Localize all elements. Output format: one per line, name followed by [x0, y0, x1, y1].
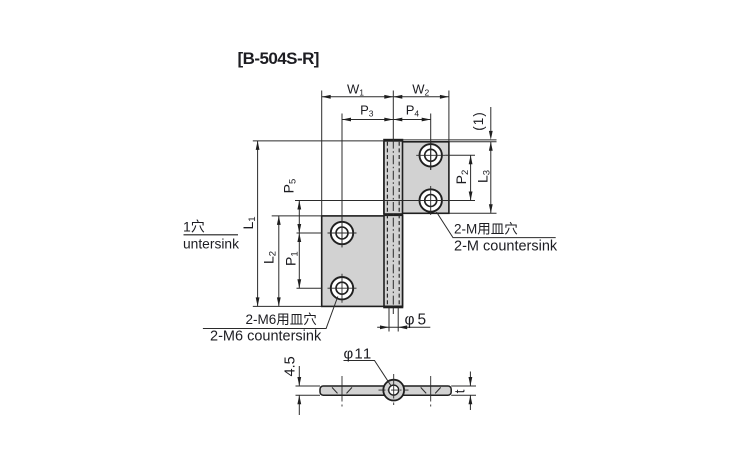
dimension line P5	[298, 201, 300, 234]
right plate upper hole inner hole circle	[425, 149, 437, 161]
svg-text:W1: W1	[347, 82, 364, 98]
left leaf plate	[322, 216, 403, 307]
svg-text:2-M6用皿穴: 2-M6用皿穴	[246, 312, 317, 327]
dimension t arrows	[469, 372, 471, 387]
side view extension lines right	[451, 385, 476, 387]
dimension line L2	[278, 216, 280, 307]
left plate upper hole inner hole circle	[336, 227, 348, 239]
knuckle middle cap	[384, 213, 404, 216]
dimension line P2	[470, 155, 472, 200]
extension line: right plate top edge extended right	[449, 141, 497, 143]
dimension 4.5 arrows	[298, 366, 300, 386]
svg-text:P5: P5	[281, 179, 299, 194]
svg-text:φ11: φ11	[344, 346, 373, 363]
right plate upper hole crosshair	[416, 154, 445, 156]
knuckle hidden line right	[398, 142, 400, 306]
extension line: W1 left vertical	[321, 91, 323, 216]
pivot pin centerline stub	[392, 308, 394, 314]
dimension line P3	[342, 119, 393, 121]
svg-text:4.5: 4.5	[283, 356, 299, 376]
knuckle top cap	[384, 139, 404, 141]
right plate lower hole inner hole circle	[425, 195, 437, 207]
svg-text:W2: W2	[412, 82, 429, 98]
extension line: P3 left vertical (left hole centreline up)	[341, 114, 343, 248]
dimension line L1	[257, 141, 259, 307]
leader 2-M6 countersink	[203, 297, 338, 329]
svg-text:φ5: φ5	[405, 312, 430, 329]
svg-text:P3: P3	[360, 103, 374, 119]
right leaf plate	[384, 142, 449, 214]
svg-text:L2: L2	[261, 251, 279, 264]
side view extension lines left	[296, 385, 321, 387]
side view knuckle circle	[383, 380, 404, 401]
svg-text:(1): (1)	[471, 111, 486, 131]
extension line: W1/W2 centre vertical	[392, 91, 394, 140]
side view countersink hidden V left	[332, 387, 338, 393]
left plate upper hole crosshair	[328, 232, 357, 234]
extension line: knuckle top to right	[403, 139, 497, 141]
dimension line W2	[393, 96, 449, 98]
right plate upper hole outer countersink circle	[420, 144, 442, 166]
side view hole centerline right	[430, 376, 432, 402]
dimension line phi5	[377, 326, 430, 328]
pivot pin lines (phi5)	[388, 308, 390, 332]
extension line: W2 right vertical	[448, 91, 450, 142]
svg-text:L1: L1	[240, 216, 258, 229]
left plate lower hole outer countersink circle	[331, 277, 353, 299]
leader phi11 (underline + bend to knuckle)	[344, 361, 392, 387]
dimension line P1	[298, 233, 300, 288]
dimension line L3	[490, 142, 492, 214]
side view knuckle crosshair	[379, 389, 409, 391]
svg-text:2-M6 countersink: 2-M6 countersink	[210, 329, 322, 345]
extension line: left plate bottom edge extended left	[253, 305, 322, 307]
side view pin hole	[389, 385, 399, 395]
side view leaf bar	[320, 386, 451, 395]
svg-text:1穴: 1穴	[183, 219, 205, 235]
extension line: right upper hole to right (P2 top)	[445, 154, 475, 156]
clipped underline	[184, 234, 239, 236]
dimension line P4	[393, 119, 430, 121]
side view countersink hidden V right	[421, 387, 427, 393]
knuckle strip body	[384, 140, 403, 308]
left plate upper hole outer countersink circle	[331, 222, 353, 244]
extension line: right lower hole across (P5 / P2 bottom)	[295, 200, 475, 202]
knuckle bottom cap	[384, 306, 404, 308]
svg-text:P4: P4	[406, 103, 420, 119]
svg-text:untersink: untersink	[183, 237, 239, 252]
svg-text:P2: P2	[453, 170, 471, 185]
dimension line (1) offset	[490, 107, 492, 131]
svg-text:2-M用皿穴: 2-M用皿穴	[454, 222, 518, 237]
left plate lower hole inner hole circle	[336, 282, 348, 294]
svg-text:t: t	[452, 389, 468, 393]
dimension line W1	[322, 96, 394, 98]
right plate lower hole outer countersink circle	[420, 189, 442, 211]
extension line: top reference (left of knuckle)	[253, 140, 384, 142]
right plate lower hole crosshair	[416, 200, 445, 202]
extension line: left plate top edge extended left	[272, 215, 322, 217]
left plate lower hole crosshair	[328, 287, 357, 289]
hinge top-view drawing group	[203, 91, 556, 332]
extension line: P4 right vertical (right hole centreline up)	[430, 114, 432, 171]
extension line: left upper hole to left (P5 bottom / P1 top)	[297, 232, 322, 234]
side view group	[296, 361, 477, 416]
leader 2-M countersink	[437, 212, 556, 238]
knuckle hidden line left	[386, 142, 388, 306]
extension line: right plate bottom edge extended right	[449, 212, 497, 214]
svg-text:2-M countersink: 2-M countersink	[454, 239, 558, 255]
extension line: left lower hole to left (P1 bottom)	[297, 287, 322, 289]
knuckle centerline	[392, 140, 394, 308]
side view hole centerline left	[341, 376, 343, 402]
svg-text:[B-504S-R]: [B-504S-R]	[238, 49, 319, 68]
svg-text:L3: L3	[475, 170, 493, 183]
svg-text:P1: P1	[283, 251, 301, 266]
